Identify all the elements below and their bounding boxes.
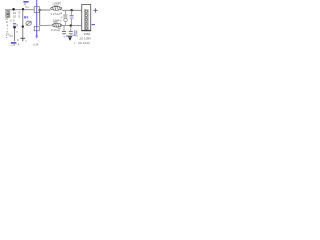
circle-slash symbol (26, 21, 31, 25)
node junction dot A4 (70, 9, 72, 11)
blue arrow head bottom (35, 36, 38, 39)
blue plus marker right of IC (93, 8, 97, 12)
net arrow blue top (23, 1, 29, 3)
ground symbol left (20, 37, 25, 39)
connector cells left edge (6, 11, 10, 18)
net arrow blue bottom-left (11, 42, 17, 44)
wire vertical x14.5 down (14, 29, 16, 42)
component box2 on blue line (34, 26, 39, 30)
blue dash marker right of IC (92, 24, 96, 26)
diode triangle on x14.5 branch (13, 26, 17, 29)
left label column text rows (6, 17, 11, 40)
node junction dot B1 (22, 25, 24, 27)
ground rail below caps (66, 34, 75, 36)
component box1 on blue line (34, 7, 39, 13)
svg-text:l t 0: l t 0 (10, 19, 15, 23)
svg-text:1G: 1G (13, 11, 17, 15)
small component below IC with blue (76, 31, 78, 35)
IC pin cell strip (84, 10, 88, 30)
capacitor C-bl1 below wire B (63, 26, 65, 31)
IC pin circles (85, 10, 87, 12)
gray capacitor with circle mid-right (64, 10, 66, 14)
wire vertical x23 down from node A2 (22, 10, 24, 39)
ground small blue tick (66, 36, 68, 37)
node junction dot A2 (22, 8, 24, 10)
blue label near x24 (24, 16, 26, 18)
svg-text:E: E (19, 14, 21, 18)
wire top rail segment 3 (62, 9, 82, 11)
svg-text:U.14: U.14 (33, 42, 39, 46)
IC box U501 (82, 5, 91, 31)
capacitor C-bl2 below wire B (70, 26, 72, 31)
blue vertical line x36.7 (36, 0, 38, 36)
IC bottom edge thick (82, 30, 91, 32)
svg-text:0.47uH: 0.47uH (51, 12, 60, 16)
svg-text:3C 134V: 3C 134V (78, 41, 91, 45)
capacitor blue plates small (x14.5 branch) (13, 22, 16, 25)
node junction dot A3 (39, 9, 41, 11)
mid-left glyph column (9, 11, 20, 46)
inductor L584 coil (52, 23, 62, 27)
svg-text:2.2k: 2.2k (10, 44, 15, 47)
wire vertical x39.7 (39, 10, 41, 26)
node junction dot A1 (12, 8, 15, 11)
svg-text:x.: x. (25, 40, 27, 43)
ground arrow symbol (68, 36, 72, 38)
wire main top rail y=9.7 (5, 9, 34, 11)
svg-text:J584: J584 (84, 32, 91, 36)
capacitor C-top blue at x71.5 (71, 10, 73, 15)
svg-text:1G: 1G (13, 14, 17, 18)
inductor L583 coil (51, 6, 62, 10)
wire top rail segment 2 (39, 9, 50, 11)
wire B rail y25.6 (40, 24, 52, 27)
svg-text:E: E (19, 11, 21, 15)
svg-text:3 lt: 3 lt (9, 34, 13, 38)
node junction dot B2 (70, 24, 72, 26)
